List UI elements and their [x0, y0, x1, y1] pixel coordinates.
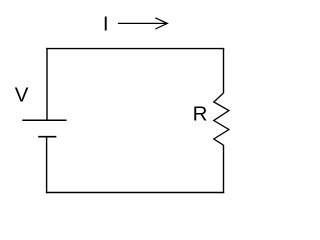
svg-text:R: R — [193, 103, 208, 126]
voltage source V (battery) : long positive plate — [22, 119, 66, 121]
voltage source V (battery) : short negative plate — [38, 136, 56, 138]
wire bottom — [46, 192, 224, 194]
svg-text:V: V — [15, 84, 29, 107]
wire left lower (battery - plate down to bottom corner) — [46, 137, 48, 194]
wire right lower (resistor down to bottom corner) — [223, 145, 225, 193]
svg-text:I: I — [103, 12, 109, 35]
wire top (from V to R) — [46, 48, 224, 50]
wire right upper (top corner down to resistor) — [223, 48, 225, 93]
wire left upper (top corner down to battery + plate) — [46, 48, 48, 120]
resistor R (zigzag) — [214, 93, 229, 145]
current direction arrow — [118, 18, 167, 29]
